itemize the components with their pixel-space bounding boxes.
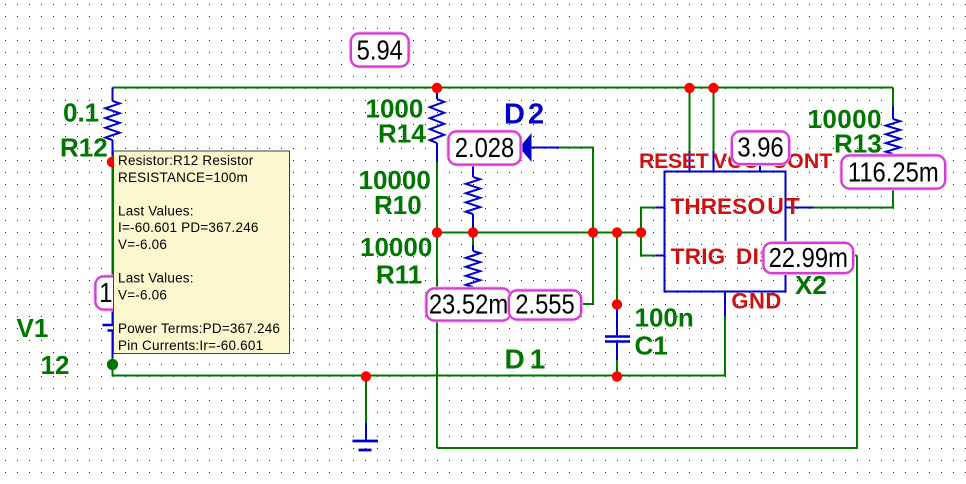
wire C1 bottom [616, 342, 618, 376]
pin CONT stub [759, 164, 761, 171]
pin RESET stub [689, 151, 691, 171]
svg-text:R14: R14 [378, 119, 426, 149]
svg-text:23.52m: 23.52m [429, 288, 508, 320]
svg-text:OUT: OUT [748, 193, 802, 219]
wire RESET stub [689, 88, 691, 152]
svg-text:RESISTANCE=100m: RESISTANCE=100m [118, 170, 248, 185]
svg-text:R11: R11 [376, 260, 422, 290]
svg-text:2.555: 2.555 [515, 288, 575, 320]
wire THRES connection [641, 208, 665, 256]
resistor R13 [892, 107, 894, 119]
svg-text:V1: V1 [17, 313, 49, 343]
svg-text:C1: C1 [635, 331, 668, 361]
wire ground tap [365, 376, 367, 424]
resistor R10 [472, 165, 474, 178]
wire VCC stub [713, 88, 715, 152]
pin THRES stub [656, 207, 665, 209]
node V1 bottom (green dot) [107, 359, 118, 370]
pin OUT stub [786, 207, 815, 209]
svg-text:RESET: RESET [639, 149, 709, 173]
wire GND pin to bottom rail [724, 315, 726, 376]
svg-text:Power Terms:PD=367.246: Power Terms:PD=367.246 [118, 321, 280, 336]
wire D1 column (R14 down through D1 to bottom) [436, 161, 438, 448]
wire D2 cathode to node column [558, 148, 593, 305]
tooltip info box for R12 [114, 151, 290, 354]
svg-text:V=-6.06: V=-6.06 [118, 237, 167, 252]
svg-text:3.96: 3.96 [737, 131, 783, 163]
resistor R14 [436, 88, 438, 99]
pin TRIG stub [656, 255, 665, 257]
voltage readout 5.94 [351, 34, 409, 67]
wire junction row THR/TRIG node [437, 232, 641, 234]
wire top VCC rail [113, 87, 894, 89]
svg-text:Resistor:R12 Resistor: Resistor:R12 Resistor [118, 153, 254, 168]
svg-text:5.94: 5.94 [357, 34, 403, 66]
resistor R12 [112, 88, 114, 102]
svg-text:D1: D1 [505, 344, 551, 375]
resistor R11 [472, 245, 474, 251]
pin VCC stub [713, 151, 715, 171]
voltage readout 2.555 [509, 291, 581, 320]
svg-text:10000: 10000 [360, 232, 432, 262]
ground [365, 423, 367, 440]
voltage readout 3.96 [732, 132, 789, 165]
op-amp U1 555 timer box X2 [665, 172, 786, 292]
wire V1 bottom to ground rail corner [113, 358, 726, 376]
svg-text:R10: R10 [374, 190, 422, 220]
svg-text:D2: D2 [504, 99, 547, 131]
svg-text:12: 12 [41, 350, 70, 380]
svg-text:22.99m: 22.99m [769, 241, 848, 273]
wire bottom rail to DIS [437, 256, 857, 449]
wire DIS pin horizontal [786, 255, 857, 257]
voltage readout 12 (V1, partly hidden) [96, 277, 153, 310]
capacitor C1 [616, 305, 618, 336]
current readout 23.52m [427, 289, 511, 321]
pin GND stub [724, 292, 726, 317]
wire C1 column [616, 233, 618, 306]
svg-text:100n: 100n [635, 303, 694, 333]
wire 2.555 meter to node [581, 303, 593, 305]
svg-text:2.028: 2.028 [455, 131, 515, 163]
current readout 22.99m [764, 243, 854, 273]
svg-text:THRES: THRES [671, 194, 748, 219]
wire OUT to R13 [795, 190, 893, 208]
svg-text:0.1: 0.1 [63, 98, 99, 128]
svg-text:GND: GND [731, 289, 781, 314]
svg-text:I=-60.601 PD=367.246: I=-60.601 PD=367.246 [118, 220, 259, 235]
battery V1 [112, 311, 114, 324]
junction dots [432, 83, 442, 93]
svg-text:R12: R12 [60, 133, 108, 163]
voltage readout 2.028 [449, 132, 521, 165]
svg-text:Last Values:: Last Values: [118, 271, 194, 286]
current readout 116.25m [842, 156, 946, 189]
svg-text:Last Values:: Last Values: [118, 203, 194, 218]
svg-text:TRIG: TRIG [671, 244, 726, 269]
svg-text:116.25m: 116.25m [848, 156, 939, 188]
wire R11 top lead [472, 233, 474, 246]
svg-text:V=-6.06: V=-6.06 [118, 287, 167, 302]
wire R13 top lead [892, 88, 894, 108]
wire R12 to V1 (left column) [112, 155, 114, 311]
svg-text:Pin Currents:Ir=-60.601: Pin Currents:Ir=-60.601 [118, 338, 263, 353]
diode D2 [520, 135, 531, 161]
